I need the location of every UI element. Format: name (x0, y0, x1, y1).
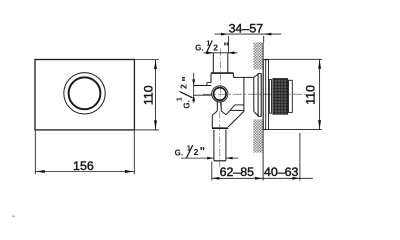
svg-text:": " (182, 76, 194, 81)
svg-text:2: 2 (213, 42, 218, 52)
svg-text:G.: G. (195, 43, 203, 52)
svg-text:G.: G. (175, 148, 183, 157)
svg-text:": " (200, 147, 205, 159)
svg-text:110: 110 (304, 85, 318, 105)
svg-text:": " (223, 42, 228, 54)
svg-text:62–85: 62–85 (220, 165, 255, 179)
svg-text:1: 1 (174, 97, 183, 101)
svg-text:G.: G. (182, 100, 191, 108)
svg-text:40–63: 40–63 (264, 165, 299, 179)
svg-text:156: 156 (73, 159, 94, 173)
svg-text:34–57: 34–57 (229, 22, 264, 36)
svg-text:2: 2 (178, 84, 188, 89)
svg-text:2: 2 (194, 147, 199, 157)
svg-text:110: 110 (141, 85, 155, 105)
